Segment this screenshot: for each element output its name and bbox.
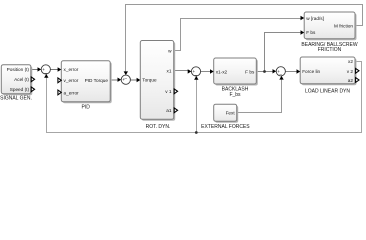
input arrow Torque	[137, 78, 141, 82]
svg-text:Position (t): Position (t)	[7, 67, 30, 72]
wire: x1 to sum4	[174, 70, 190, 72]
arrow into sum4 bottom	[194, 76, 198, 80]
block LOAD LINEAR DYN	[300, 57, 355, 84]
block SIGNAL GEN shadow	[3, 66, 33, 95]
svg-text:–: –	[279, 72, 282, 77]
wire: sum1 to PID	[51, 69, 60, 71]
input arrow w	[301, 16, 305, 20]
svg-text:v 1: v 1	[165, 89, 172, 94]
svg-text:a1: a1	[166, 108, 172, 113]
arrow into sum2 left	[118, 78, 122, 82]
arrow into sum1 bottom	[44, 74, 48, 78]
block FRICTION	[304, 12, 355, 39]
svg-text:SIGNAL GEN.: SIGNAL GEN.	[0, 96, 32, 102]
svg-text:F bs: F bs	[306, 30, 316, 35]
wire: sum2 to ROT DYN	[131, 79, 139, 81]
unconnected port arrow v1	[174, 89, 177, 94]
svg-text:v 2: v 2	[347, 69, 354, 74]
svg-text:EXTERNAL FORCES: EXTERNAL FORCES	[201, 124, 250, 130]
svg-text:x1: x1	[167, 68, 172, 73]
unconnected port arrow Speed	[31, 87, 34, 92]
svg-text:Speed (t): Speed (t)	[10, 87, 30, 92]
svg-text:PID: PID	[82, 105, 91, 111]
arrow into sum2 top	[124, 71, 128, 75]
arrow into sum1 left	[38, 67, 42, 71]
unconnected port arrow a_error	[58, 90, 61, 95]
svg-text:F_bs: F_bs	[229, 92, 241, 98]
svg-text:Acel (t): Acel (t)	[14, 77, 29, 82]
svg-text:–: –	[44, 70, 47, 75]
svg-text:Force lin: Force lin	[302, 69, 320, 74]
svg-text:–: –	[124, 75, 127, 80]
unconnected port arrow a2	[356, 78, 359, 83]
unconnected port arrow v2	[356, 68, 359, 73]
unconnected port arrow Acel	[31, 77, 34, 82]
block ROT DYN shadow	[142, 42, 175, 121]
wire: sum5 to LOAD	[286, 71, 299, 73]
wire: bottom branch to sum4	[196, 78, 198, 133]
arrow into sum4 left	[188, 69, 192, 73]
svg-text:Fext: Fext	[226, 110, 236, 115]
input arrow BACKLASH	[210, 69, 214, 73]
svg-text:a_error: a_error	[64, 90, 80, 95]
junction F bs branch	[263, 70, 266, 73]
svg-text:ROT. DYN.: ROT. DYN.	[146, 124, 171, 130]
svg-text:M friction: M friction	[334, 23, 353, 28]
block EXTERNAL FORCES shadow	[215, 106, 238, 123]
svg-text:FRICTION: FRICTION	[318, 47, 342, 53]
svg-text:PID Torque: PID Torque	[85, 78, 109, 83]
svg-text:x_error: x_error	[64, 67, 79, 72]
wire: x2 bottom feedback loop	[47, 62, 362, 133]
svg-text:v_error: v_error	[64, 78, 79, 83]
svg-text:Torque: Torque	[142, 78, 157, 83]
svg-text:x2: x2	[348, 59, 353, 64]
sum1	[41, 65, 50, 74]
arrow into sum5 left	[273, 69, 277, 73]
wire: BACKLASH out to sum5	[256, 71, 274, 73]
unconnected port arrow v_error	[58, 78, 61, 83]
block LOAD LINEAR DYN shadow	[302, 59, 357, 86]
block PID	[61, 61, 110, 102]
svg-text:x1-x2: x1-x2	[216, 69, 228, 74]
block BACKLASH	[214, 58, 257, 84]
svg-text:LOAD LINEAR DYN: LOAD LINEAR DYN	[305, 88, 350, 94]
svg-text:F bs: F bs	[245, 69, 255, 74]
wire: branch up to friction F bs	[265, 33, 303, 72]
block BACKLASH shadow	[215, 60, 258, 86]
arrow into sum5 bottom	[279, 76, 283, 80]
wire: sum4 to BACKLASH	[201, 71, 212, 73]
block PID shadow	[63, 62, 112, 103]
svg-text:w [rad/s]: w [rad/s]	[306, 16, 324, 21]
block FRICTION shadow	[306, 14, 357, 41]
unconnected port arrow a1	[174, 108, 177, 113]
wire: EXTERNAL FORCES to sum5	[237, 78, 282, 113]
sum2	[121, 75, 130, 84]
block EXTERNAL FORCES	[214, 104, 237, 121]
sum4	[191, 67, 200, 76]
input arrow x_error	[58, 67, 62, 71]
input arrow F bs	[301, 30, 305, 34]
wire: PID to sum2	[110, 79, 119, 81]
svg-text:a2: a2	[348, 78, 354, 83]
sum5	[276, 67, 285, 76]
wire: w to friction	[174, 19, 303, 51]
junction bottom branch	[195, 131, 198, 134]
wire: Position to sum1	[31, 69, 40, 71]
input arrow Force lin	[297, 69, 301, 73]
block ROT DYN	[140, 41, 173, 120]
wire: M friction feedback top loop	[126, 5, 363, 74]
block SIGNAL GEN	[1, 65, 31, 94]
